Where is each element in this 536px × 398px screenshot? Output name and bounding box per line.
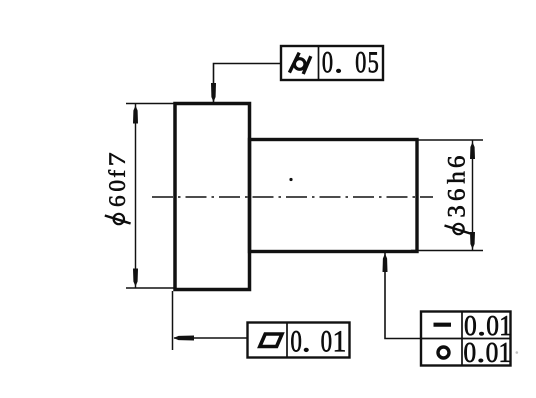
straightness symbol [434, 323, 452, 327]
feature control frame: straightness 0.01 / circularity 0.01 (bottom right) [421, 312, 511, 366]
cylindricity symbol [289, 53, 310, 74]
dimension φ60f7: top extension line [126, 103, 176, 105]
value text 0.05 [323, 52, 378, 73]
leader arrowhead (up onto φ36 bottom surface) [383, 254, 388, 273]
leader from cylindricity frame to flange top [214, 64, 282, 104]
feature control frame: cylindricity 0.05 (top) [281, 46, 383, 80]
leader arrowhead (left, onto end-face extension line) [174, 336, 195, 341]
dimension text φ60f7 [105, 153, 131, 224]
feature control frame: flatness 0.01 (bottom left) [248, 323, 350, 358]
dimension φ36h6: top arrowhead [470, 142, 475, 159]
large cylinder (flange) outline φ60 [175, 104, 250, 290]
value text 0.01 [291, 331, 344, 352]
straightness value 0.01 [465, 316, 510, 335]
dimension text φ36h6 [445, 156, 471, 234]
leader arrowhead (down onto flange top face) [211, 83, 216, 102]
dimension φ60f7: top arrowhead [133, 106, 138, 124]
dimension φ60f7: bottom extension line [126, 287, 176, 289]
dimension φ60f7: dimension line [135, 104, 137, 288]
leader from straightness/circularity frame to φ36 surface [385, 253, 421, 339]
phi symbol of φ36h6 [445, 224, 471, 234]
circularity value 0.01 [464, 343, 509, 362]
faint speck right of lower frame [516, 351, 519, 354]
circularity symbol [438, 347, 449, 358]
flatness symbol (parallelogram) [260, 334, 282, 347]
dimension φ36h6: bottom arrowhead [470, 232, 475, 249]
stray dot (scan speck) [289, 178, 292, 181]
dimension φ36h6: dimension line [472, 141, 474, 251]
dimension φ60f7: bottom arrowhead [133, 269, 138, 287]
centerline (axis, dash-dot) [152, 196, 433, 198]
dimension φ36h6: bottom extension line [411, 250, 483, 252]
phi symbol of φ60f7 [105, 214, 131, 224]
leader from flatness frame to left end face [174, 337, 248, 339]
end-face extension line (vertical, below flange) [172, 291, 174, 350]
small cylinder outline φ36 [250, 140, 418, 252]
dimension φ36h6: top extension line [413, 139, 483, 141]
